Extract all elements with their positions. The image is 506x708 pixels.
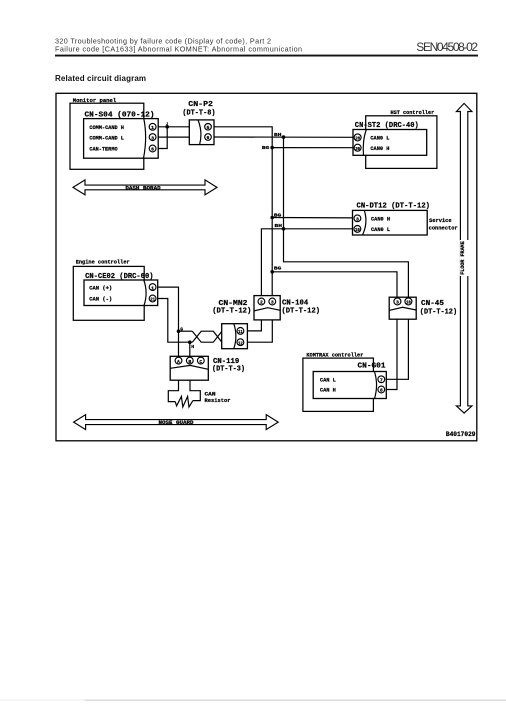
svg-text:CN-S04 (070-12): CN-S04 (070-12) <box>85 111 155 119</box>
node J junction dot <box>165 125 169 129</box>
wire CN-MN2 pin12 to CN-104 pin3 <box>244 320 272 342</box>
svg-text:Service: Service <box>429 218 451 224</box>
connector CN-ST2 box <box>353 130 427 156</box>
svg-text:CAN0 L: CAN0 L <box>371 226 391 233</box>
connector CN-P2 divider <box>198 120 201 145</box>
pin 1 CN-CE02 <box>149 284 156 291</box>
svg-text:3: 3 <box>396 300 399 306</box>
svg-text:B4017029: B4017029 <box>446 431 476 438</box>
svg-text:21: 21 <box>150 297 155 303</box>
connector CN-45 chevron <box>389 307 416 310</box>
pin 11 CN-MN2 <box>237 328 244 335</box>
svg-text:30: 30 <box>355 146 360 152</box>
svg-text:6: 6 <box>151 147 154 153</box>
connector CN-119 chevron <box>170 365 208 369</box>
pin 5 CN-P2 <box>205 124 212 131</box>
svg-text:J: J <box>166 123 168 127</box>
svg-text:DASH BORAD: DASH BORAD <box>125 185 160 191</box>
connector CN-MN2 box <box>222 324 248 349</box>
diagram outer border <box>56 93 477 441</box>
svg-text:7: 7 <box>380 378 383 384</box>
svg-text:11: 11 <box>238 329 243 335</box>
wire BH row to CN-DT12 pin10 <box>261 229 354 298</box>
svg-text:FLOOR FRAME: FLOOR FRAME <box>460 241 466 275</box>
wire CN-CE02 pin1 down to CN-119 pin A <box>158 287 179 361</box>
connector CN-G01 box <box>313 372 386 399</box>
connector CN-104 chevron <box>254 308 280 311</box>
svg-text:connector: connector <box>429 226 458 232</box>
connector CN-ST2 divider <box>363 130 366 156</box>
monitor panel box <box>70 103 144 169</box>
svg-text:A: A <box>177 359 180 365</box>
pin 20 CN-ST2 <box>354 134 361 141</box>
pin 3 CN-DT12 <box>354 215 361 222</box>
pin 3 CN-104 <box>269 298 276 305</box>
connector CN-MN2 divider <box>234 324 236 349</box>
svg-text:2: 2 <box>260 300 263 306</box>
svg-text:Resistor: Resistor <box>205 398 231 404</box>
svg-text:CN-G01: CN-G01 <box>358 363 387 371</box>
svg-text:CAN-TERMO: CAN-TERMO <box>89 146 118 153</box>
svg-text:(DT-T-12): (DT-T-12) <box>420 309 457 317</box>
wire H vertical to CN-119 pin B <box>189 342 191 360</box>
svg-text:1: 1 <box>151 285 154 291</box>
wire CN-S04 pin1 to CN-P2 pin5 <box>158 126 189 128</box>
node BH mid junction <box>282 227 286 231</box>
wire CN-P2 pin6 to CN-ST2 pin20 (BH) <box>214 136 354 138</box>
node BG mid junction <box>270 216 274 220</box>
connector CN-104 box <box>254 296 280 320</box>
svg-text:12: 12 <box>238 340 243 346</box>
svg-text:CAN H: CAN H <box>320 387 336 394</box>
pin 6 CN-S04 <box>149 145 156 152</box>
connector CN-G01 divider <box>375 372 377 399</box>
pin 6 CN-P2 <box>205 134 212 141</box>
pin 10 CN-DT12 <box>354 226 361 233</box>
svg-text:SEN04508-02: SEN04508-02 <box>416 40 478 54</box>
svg-text:BH: BH <box>275 223 283 229</box>
pin 8 CN-G01 <box>378 386 385 393</box>
svg-text:B: B <box>188 359 191 365</box>
connector CN-S04 divider <box>144 119 146 159</box>
connector CN-DT12 divider <box>363 210 366 235</box>
svg-text:HST controller: HST controller <box>391 109 435 116</box>
node G junction <box>177 329 181 333</box>
pin 7 CN-G01 <box>378 376 385 383</box>
wire CN-CE02 pin21 down to H row <box>158 299 193 343</box>
pin 21 CN-CE02 <box>149 295 156 302</box>
svg-text:COMM-CAND L: COMM-CAND L <box>89 134 124 141</box>
svg-text:(DT-T-3): (DT-T-3) <box>212 366 245 374</box>
svg-text:G: G <box>180 326 183 332</box>
svg-text:CN-DT12 (DT-T-12): CN-DT12 (DT-T-12) <box>357 202 431 210</box>
svg-text:H: H <box>191 344 194 350</box>
wire CN-45 pin10 down to CN-G01 pin7 <box>386 318 408 379</box>
svg-text:CAN L: CAN L <box>320 376 337 383</box>
pin 30 CN-ST2 <box>354 144 361 151</box>
wire BG row to CN-45 pin3 <box>272 272 397 297</box>
HST controller box <box>366 116 437 169</box>
KOMTRAX controller box <box>303 358 374 411</box>
svg-text:3: 3 <box>151 135 154 141</box>
wire CN-S04 pin6 stub <box>158 127 167 149</box>
node BG top junction <box>270 146 274 150</box>
wire CN-P2 pin5 to vertical BG <box>214 127 272 298</box>
svg-text:10: 10 <box>355 227 360 233</box>
wire CN-45 pin3 down to CN-G01 pin8 <box>386 318 397 389</box>
wire CN-S04 pin3 to CN-P2 pin6 <box>158 136 189 138</box>
pin 1 CN-S04 <box>149 123 156 130</box>
svg-text:NOSE GUARD: NOSE GUARD <box>159 420 194 426</box>
svg-text:C: C <box>199 359 202 365</box>
svg-text:BG: BG <box>262 145 270 151</box>
node H junction <box>188 340 192 344</box>
FLOOR FRAME arrow <box>456 103 472 413</box>
svg-text:BG: BG <box>274 212 282 218</box>
resistor zigzag <box>175 396 193 407</box>
svg-text:CAN (-): CAN (-) <box>89 295 112 302</box>
svg-text:3: 3 <box>356 217 359 223</box>
wire G row to twist <box>179 330 193 332</box>
pin 3 CN-45 <box>394 298 401 305</box>
svg-text:CN-CE02 (DRC-60): CN-CE02 (DRC-60) <box>85 273 153 281</box>
svg-text:20: 20 <box>355 136 360 142</box>
pin 3 CN-S04 <box>149 134 156 141</box>
svg-text:10: 10 <box>406 300 411 306</box>
node BH top junction <box>282 135 286 139</box>
svg-text:(DT-T-12): (DT-T-12) <box>282 308 321 316</box>
svg-text:6: 6 <box>207 135 210 141</box>
NOSE GUARD arrow <box>74 415 279 430</box>
pin 10 CN-45 <box>405 298 412 305</box>
svg-text:Failure code [CA1633] Abnormal: Failure code [CA1633] Abnormal KOMNET: A… <box>55 45 302 54</box>
svg-text:3: 3 <box>271 300 274 306</box>
pin C CN-119 <box>197 357 204 364</box>
twisted pair crossing <box>192 331 222 342</box>
svg-text:CAN (+): CAN (+) <box>89 284 112 291</box>
wire BH vertical down to CN-45 pin10 <box>284 137 409 297</box>
connector CN-45 box <box>389 297 416 319</box>
pin B CN-119 <box>186 357 193 364</box>
DASH BORAD arrow <box>73 180 217 195</box>
engine controller box <box>73 266 144 320</box>
svg-text:CN-P2: CN-P2 <box>188 101 213 109</box>
svg-text:8: 8 <box>380 388 383 394</box>
svg-text:BH: BH <box>274 132 282 138</box>
svg-text:COMM-CAND H: COMM-CAND H <box>89 124 124 131</box>
wire BG row to CN-DT12 pin3 <box>272 217 354 219</box>
page bottom edge line <box>0 700 85 701</box>
header rule <box>55 55 478 57</box>
wire CAN resistor right leg <box>190 380 200 400</box>
pin 2 CN-104 <box>258 298 265 305</box>
svg-text:CAN0 H: CAN0 H <box>371 216 390 223</box>
connector CN-P2 box <box>189 120 214 145</box>
svg-text:CAN0 L: CAN0 L <box>370 135 390 142</box>
wire BG to CN-ST2 pin30 <box>272 147 354 149</box>
svg-text:(DT-T-12): (DT-T-12) <box>212 307 251 315</box>
svg-text:CN-104: CN-104 <box>282 300 309 308</box>
svg-text:BG: BG <box>274 266 282 272</box>
svg-text:KOMTRAX controller: KOMTRAX controller <box>306 352 363 359</box>
wire CAN resistor left leg <box>168 380 178 401</box>
pin 12 CN-MN2 <box>237 339 244 346</box>
svg-text:Monitor panel: Monitor panel <box>73 97 117 104</box>
svg-text:1: 1 <box>151 125 154 131</box>
node BG lower junction <box>270 270 274 274</box>
svg-text:CAN0 H: CAN0 H <box>370 145 389 152</box>
svg-text:CN-45: CN-45 <box>421 300 444 308</box>
wire CN-104 pin3 vertical above <box>271 296 273 302</box>
pin A CN-119 <box>175 357 182 364</box>
connector CN-119 box <box>170 356 208 380</box>
svg-text:5: 5 <box>207 125 210 131</box>
svg-text:CN-ST2 (DRC-40): CN-ST2 (DRC-40) <box>355 122 419 130</box>
connector CN-CE02 divider <box>144 280 146 306</box>
svg-text:Engine controller: Engine controller <box>76 259 130 266</box>
svg-text:CAN: CAN <box>205 391 216 397</box>
connector CN-DT12 box <box>353 210 428 235</box>
svg-text:(DT-T-8): (DT-T-8) <box>182 109 215 117</box>
connector CN-S04 box <box>84 119 159 159</box>
connector CN-CE02 box <box>84 280 158 306</box>
svg-text:Related circuit diagram: Related circuit diagram <box>55 74 146 83</box>
wire CN-MN2 pin11 to CN-104 pin2 <box>244 320 261 331</box>
